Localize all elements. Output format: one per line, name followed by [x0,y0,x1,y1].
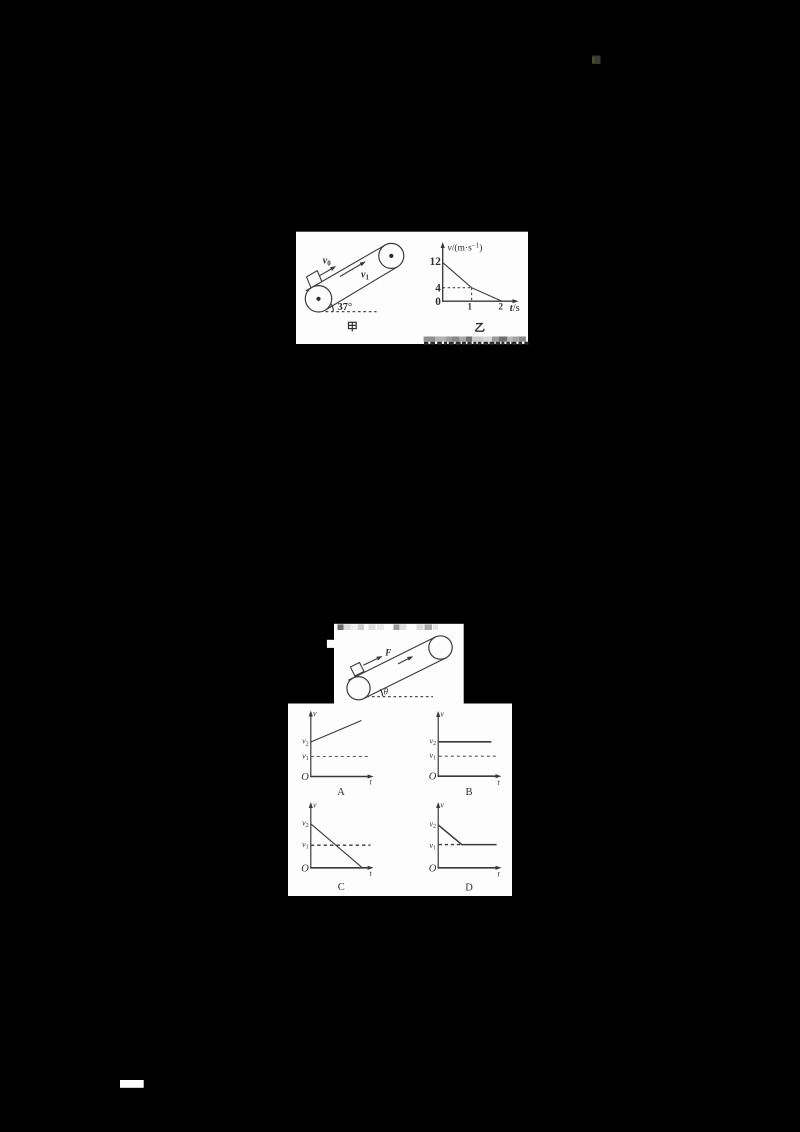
graph D y-axis [437,808,439,868]
graph A y-axis [310,717,312,778]
arrow v0 [319,269,331,276]
svg-text:t/s: t/s [510,303,520,314]
graph B dashed v1 [439,755,498,757]
graph C falling line [311,824,362,867]
v-t graph y-axis [442,248,444,302]
small white rectangle bottom-left [120,1080,144,1088]
arrow F [363,659,377,666]
svg-text:v: v [440,710,444,719]
belt lower line [325,267,397,311]
graph D dashed v1 [439,844,462,846]
censor strip 1 dark row [424,342,428,345]
arrow v1 on belt [340,264,361,276]
belt upper line [306,245,385,291]
svg-text:O: O [429,772,437,783]
graph D x-axis [438,867,496,869]
block on incline [307,271,322,288]
belt2 arrow [398,659,408,664]
graph C dashed v1 [311,844,371,846]
svg-text:D: D [465,883,473,894]
svg-text:1: 1 [468,302,473,312]
svg-text:0: 0 [435,296,441,308]
svg-text:O: O [429,863,437,874]
svg-text:O: O [301,863,309,874]
angle arc 37 [331,304,334,312]
conveyor2 upper pulley [429,636,452,659]
graph D falling then flat line [438,825,496,845]
graph B x-axis [438,775,496,777]
svg-text:37°: 37° [338,302,353,313]
svg-text:4: 4 [435,283,441,295]
belt2 lower line [364,658,446,699]
graph C y-axis [310,808,312,868]
graph B y-axis [437,717,439,777]
svg-text:A: A [337,787,345,798]
censor strip 2 gray blocks [338,624,344,630]
svg-text:F: F [384,648,391,658]
graph A dashed v1 [311,756,370,758]
dashed ground line [326,311,377,313]
svg-text:v: v [313,709,317,718]
label yi (CJK glyph drawn) [475,324,484,332]
svg-text:C: C [338,882,345,893]
dashed level 4 [443,287,472,289]
svg-text:B: B [465,787,472,798]
svg-text:v: v [440,801,444,810]
censor strip 1 gray blocks [424,337,435,342]
svg-text:2: 2 [498,302,503,312]
svg-text:θ: θ [384,687,389,697]
svg-text:12: 12 [430,256,442,268]
angle arc theta [380,689,382,696]
conveyor upper pulley [379,243,404,268]
svg-text:O: O [301,772,309,783]
graph B solid v2 line [439,741,492,743]
dashed ground line 2 [367,696,434,698]
conveyor2 lower pulley [347,677,370,700]
svg-text:v: v [313,801,317,810]
v-t graph x-axis [442,300,512,302]
graph A rising line [311,721,362,743]
dashed t=1 [471,288,473,301]
white notch left of conveyor panel [327,640,335,648]
graph C x-axis [310,867,367,869]
small gray artifact square top-right [592,56,601,65]
belt2 upper line [348,637,435,680]
label jia (CJK glyph drawn) [349,322,357,331]
block2 [350,663,364,677]
graph A x-axis [310,776,367,778]
graph line 12 to 4 to 0 [443,263,502,301]
figure panel 2 conveyor white background [334,624,464,704]
conveyor lower pulley [305,286,331,312]
graphs panel white background [288,704,512,897]
figure panel 1 (incline conveyor + v-t graph) white background [296,232,528,344]
